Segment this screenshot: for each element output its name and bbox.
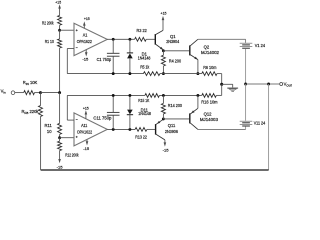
svg-text:-15: -15 xyxy=(82,56,89,61)
node A11 out / D11 xyxy=(128,128,131,131)
node on rail C1 xyxy=(112,72,115,75)
svg-text:R13 22: R13 22 xyxy=(135,135,147,140)
battery V11 24 xyxy=(245,84,247,121)
resistor R5 1k xyxy=(143,72,160,76)
wire Q2 collector to battery xyxy=(198,38,246,40)
bottom feedback rail (channel 2) xyxy=(67,94,145,96)
svg-text:R14 200: R14 200 xyxy=(168,103,183,108)
svg-text:R16 10m: R16 10m xyxy=(201,99,218,104)
svg-text:OPA1622: OPA1622 xyxy=(77,130,93,135)
svg-text:R12 200k: R12 200k xyxy=(65,152,79,157)
A1 -15 supply arrow xyxy=(85,50,87,53)
wire R2 to node xyxy=(59,25,61,30)
resistor R16 10m xyxy=(202,94,217,98)
node output rail xyxy=(244,83,247,86)
resistor R1 10 xyxy=(59,30,61,39)
resistor RIN 10K xyxy=(24,91,35,95)
resistor R2 200k xyxy=(58,15,62,25)
wire A1 output xyxy=(107,38,134,40)
A11 -15 supply arrow xyxy=(86,140,88,142)
svg-text:MJ14003: MJ14003 xyxy=(200,117,219,122)
wire Q11e to Q12 base xyxy=(163,118,189,120)
node Q2 emitter on rail xyxy=(196,72,199,75)
svg-text:-15: -15 xyxy=(83,146,90,151)
node A11 out / C11 xyxy=(112,128,115,131)
svg-text:+15: +15 xyxy=(55,0,62,4)
resistor R11 10 xyxy=(59,93,61,124)
svg-text:1N4148: 1N4148 xyxy=(138,111,151,116)
op-amp A11 OPA1622 xyxy=(74,113,107,146)
node A11 +in xyxy=(58,136,61,139)
capacitor C11 750p xyxy=(112,95,114,112)
-15 arrow below R12 xyxy=(59,151,61,160)
svg-text:+15: +15 xyxy=(161,11,168,16)
node Q1 emitter xyxy=(162,49,165,52)
op-amp A1 OPA1622 xyxy=(74,23,107,55)
svg-text:C11 750p: C11 750p xyxy=(93,116,112,121)
resistor R15 1K xyxy=(145,94,160,98)
node on rail C11 xyxy=(112,94,115,97)
svg-text:V1 24: V1 24 xyxy=(255,43,266,48)
node A1 out / D1 xyxy=(128,38,131,41)
ground node xyxy=(220,83,223,86)
output wire to Vout xyxy=(246,83,280,85)
wire Q1e to Q2 base xyxy=(163,50,189,52)
bottom feedback rail xyxy=(41,169,269,171)
diode D1 1N4148 xyxy=(129,39,131,53)
resistor R13 22 xyxy=(135,128,147,132)
ground symbol xyxy=(222,83,233,85)
A1 -in feedback wire xyxy=(67,48,74,50)
node A1 +in xyxy=(58,29,61,32)
transistor Q2 MJ14002 xyxy=(189,45,191,55)
top feedback rail xyxy=(67,73,143,75)
resistor R14 200 xyxy=(162,114,164,119)
svg-text:2N3904: 2N3904 xyxy=(166,39,180,44)
capacitor C1 750p xyxy=(112,39,114,53)
A11 -in feedback wire xyxy=(67,119,74,121)
node input chain xyxy=(58,91,61,94)
svg-text:-15: -15 xyxy=(57,164,64,169)
battery rail xyxy=(245,49,247,84)
node on rail R14 xyxy=(162,94,165,97)
svg-text:+15: +15 xyxy=(83,105,90,110)
wire V11 to Q12 collector xyxy=(198,128,246,130)
wire R1 down to input node xyxy=(59,48,61,93)
svg-text:MJ14002: MJ14002 xyxy=(201,50,220,55)
wire A11 output xyxy=(107,128,135,130)
node on rail D1 xyxy=(128,72,131,75)
resistor R4 200 xyxy=(162,51,164,55)
svg-text:R2 200k: R2 200k xyxy=(42,21,54,26)
resistor R3 22 xyxy=(135,37,147,41)
svg-text:V11 24: V11 24 xyxy=(254,120,266,125)
svg-text:OPA1622: OPA1622 xyxy=(77,39,93,44)
svg-text:10: 10 xyxy=(47,129,52,134)
node on rail D11 xyxy=(128,94,131,97)
resistor R12 200k xyxy=(58,141,62,150)
transistor Q1 2N3904 xyxy=(154,34,156,45)
svg-text:1N4148: 1N4148 xyxy=(138,56,151,61)
svg-text:A1: A1 xyxy=(83,32,88,37)
node feedback takeoff xyxy=(267,83,270,86)
node A1 out / C1 xyxy=(112,38,115,41)
svg-text:R11: R11 xyxy=(45,123,53,128)
svg-text:R6 10m: R6 10m xyxy=(203,65,217,70)
resistor R6 10m xyxy=(202,72,217,76)
transistor Q12 MJ14003 xyxy=(189,113,191,123)
svg-text:R15 1K: R15 1K xyxy=(138,98,149,103)
svg-text:-15: -15 xyxy=(163,148,170,153)
feedback wire left side xyxy=(40,117,42,171)
resistor RFB 220k xyxy=(40,93,42,106)
battery V1 24 xyxy=(240,42,253,44)
node Q11 emitter xyxy=(162,117,165,120)
wire node to A1 +in xyxy=(60,29,74,31)
svg-text:R4 200: R4 200 xyxy=(169,59,182,64)
svg-text:Q2: Q2 xyxy=(204,44,210,49)
svg-text:+15: +15 xyxy=(84,16,91,21)
svg-text:R1 10: R1 10 xyxy=(45,39,55,44)
svg-text:VOUT: VOUT xyxy=(284,82,292,88)
Q11 collector to -15 xyxy=(164,140,166,143)
feedback wire right side xyxy=(268,84,270,170)
svg-text:Q11: Q11 xyxy=(168,123,176,128)
terminal Vout xyxy=(280,83,283,86)
svg-text:C1 750p: C1 750p xyxy=(97,57,112,62)
transistor Q11 2N3906 xyxy=(155,124,157,135)
Q1 emitter xyxy=(155,44,163,50)
svg-text:A11: A11 xyxy=(81,123,88,128)
svg-text:2N3906: 2N3906 xyxy=(165,129,179,134)
node input/feedback xyxy=(39,91,42,94)
svg-text:R3 22: R3 22 xyxy=(137,28,148,33)
node on rail Q12 emitter xyxy=(196,94,199,97)
diode D11 1N4148 xyxy=(129,95,131,109)
svg-text:R5 1k: R5 1k xyxy=(140,65,150,70)
node R4 bottom on rail xyxy=(162,72,165,75)
svg-text:Vin: Vin xyxy=(1,89,6,95)
